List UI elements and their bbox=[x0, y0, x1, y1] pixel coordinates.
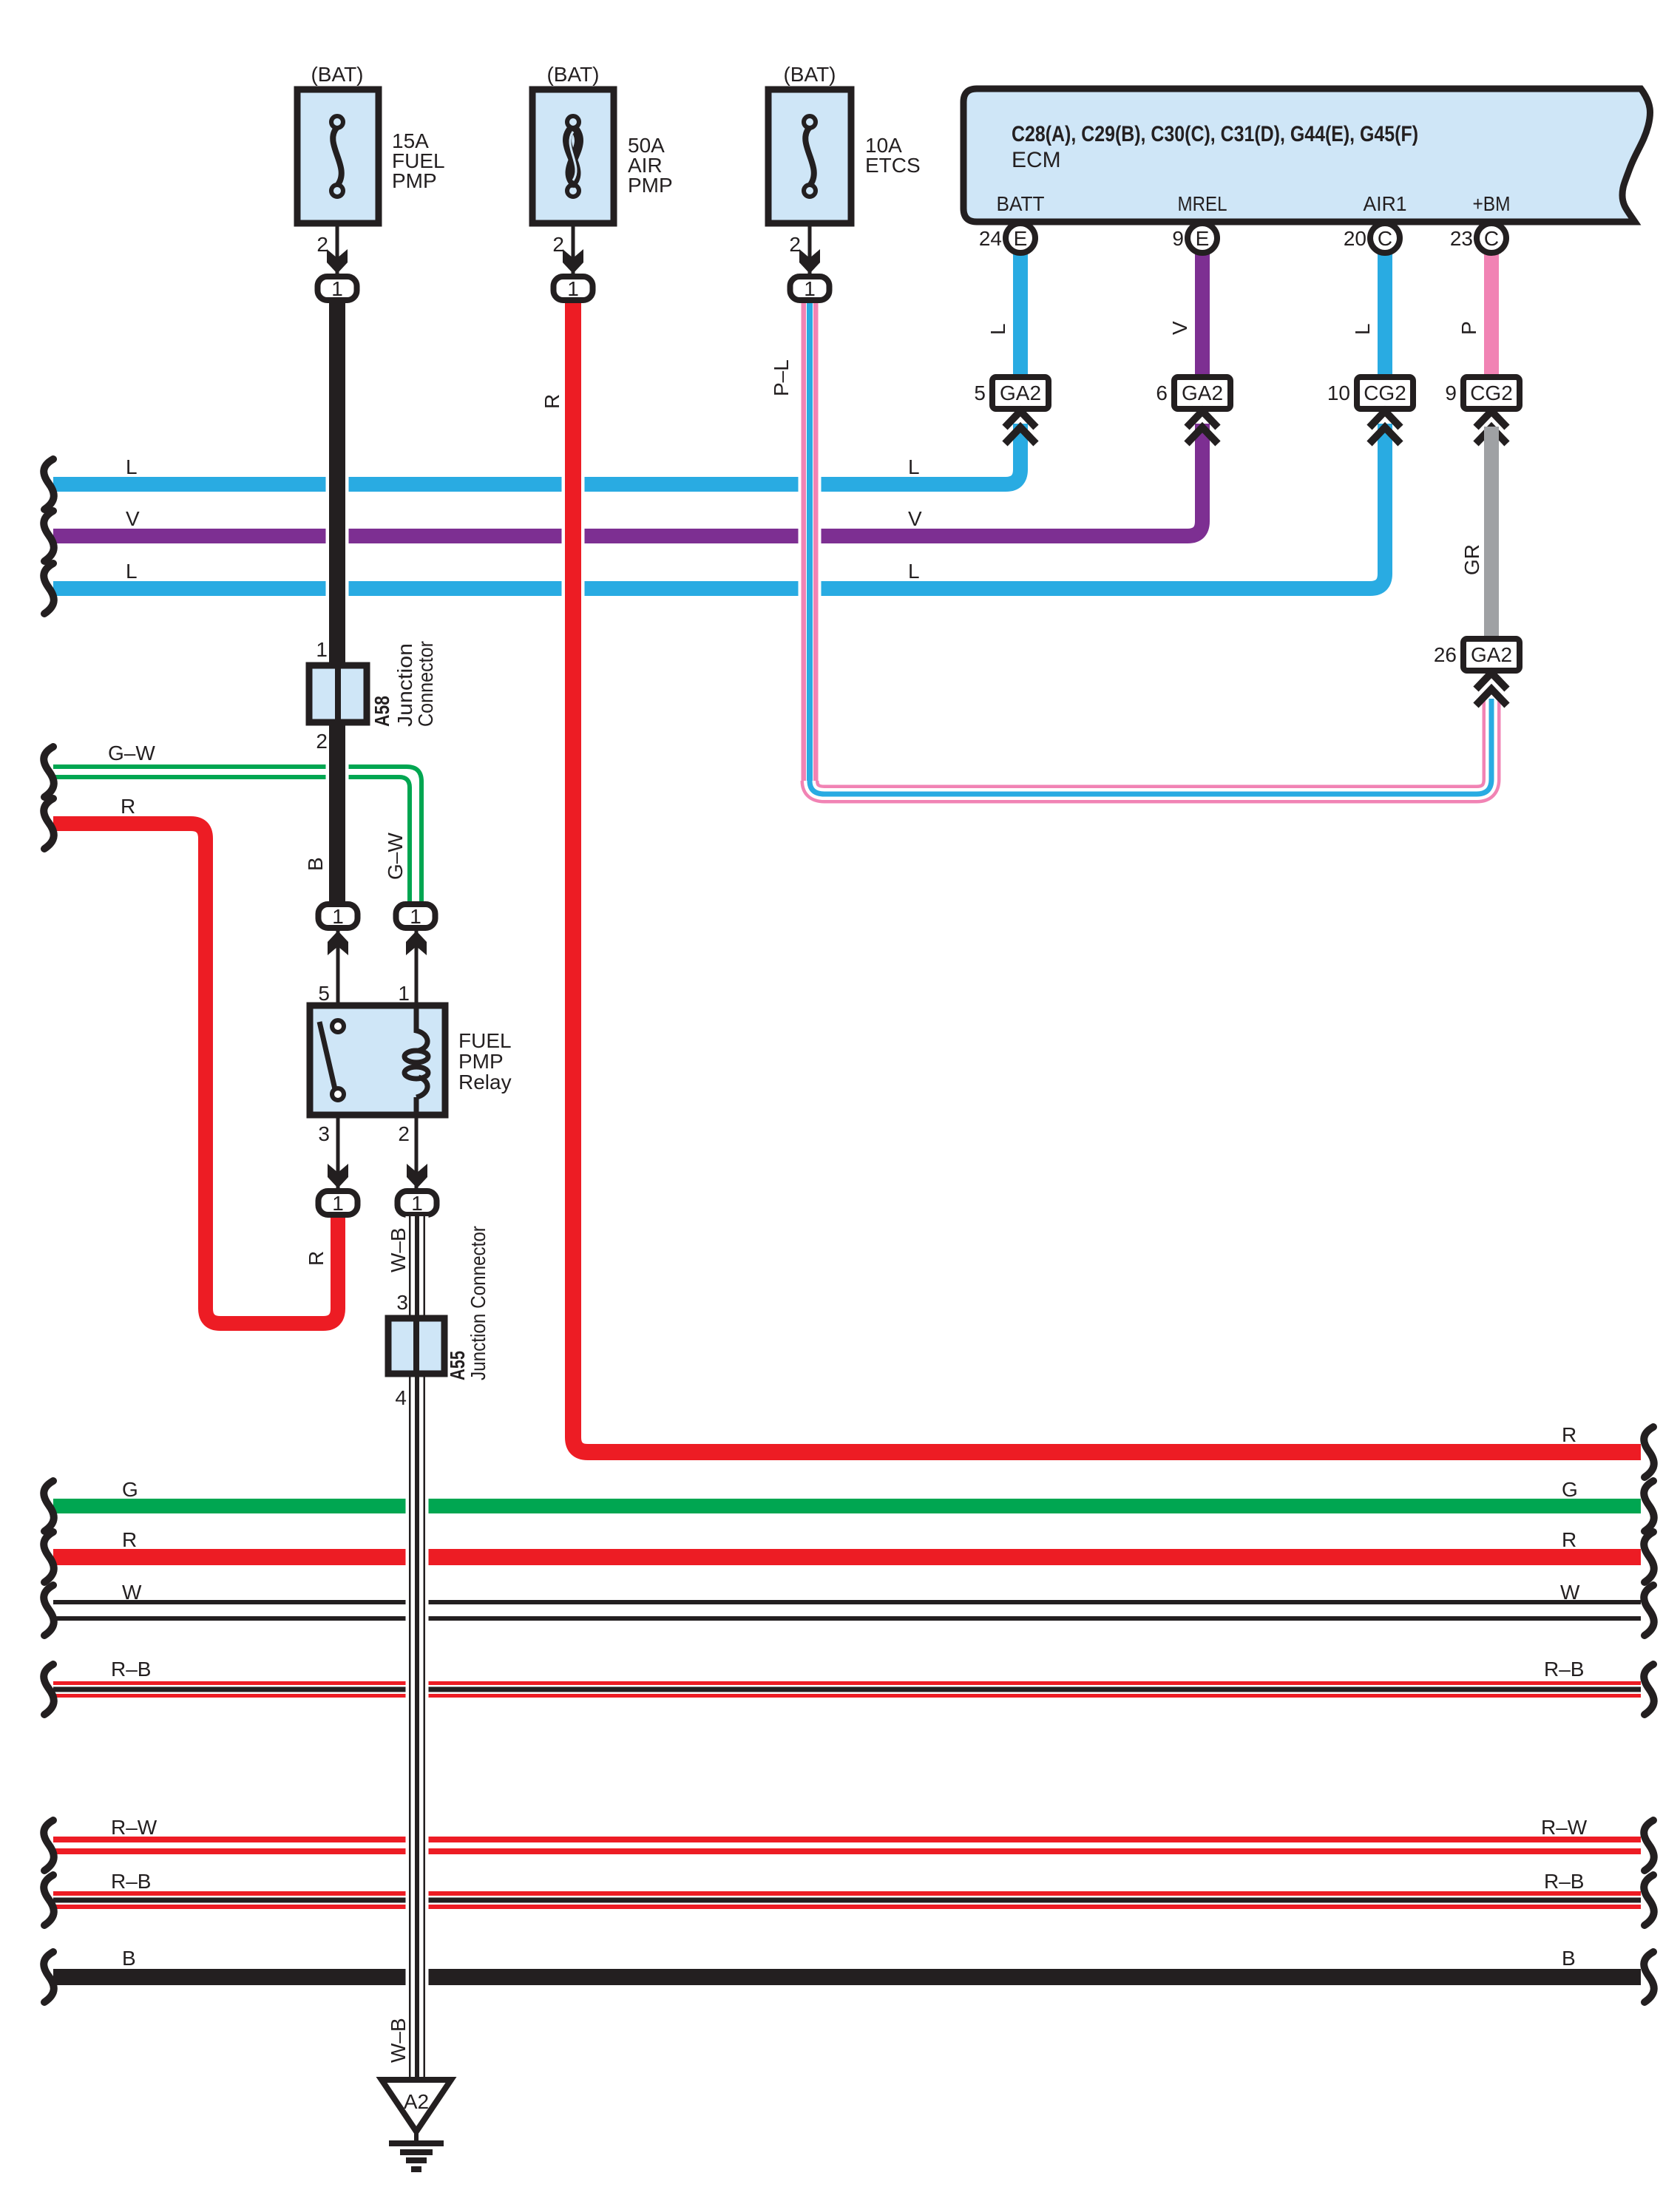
ground A2 bbox=[382, 2080, 451, 2169]
svg-text:5: 5 bbox=[318, 982, 330, 1005]
svg-text:W: W bbox=[1560, 1581, 1580, 1604]
svg-text:1: 1 bbox=[398, 982, 410, 1005]
wire bus R bbox=[44, 1528, 1654, 1582]
svg-text:R: R bbox=[1562, 1528, 1576, 1551]
svg-text:5: 5 bbox=[974, 382, 986, 404]
svg-text:L: L bbox=[126, 455, 138, 478]
junction connector A58 bbox=[309, 638, 437, 753]
svg-text:4: 4 bbox=[395, 1386, 407, 1409]
svg-text:L: L bbox=[908, 455, 920, 478]
pin 9 E (MREL) bbox=[1172, 223, 1217, 253]
wire bus R-B lower bbox=[44, 1870, 1654, 1925]
node 1 (fuse 2 output connector) bbox=[554, 249, 593, 300]
svg-text:L: L bbox=[126, 560, 138, 583]
svg-text:2: 2 bbox=[316, 730, 328, 753]
wire L (AIR1 pin to CG2) bbox=[1351, 251, 1385, 379]
svg-text:ECM: ECM bbox=[1012, 148, 1061, 172]
wire bus W bbox=[44, 1581, 1654, 1635]
svg-text:R–W: R–W bbox=[1541, 1816, 1588, 1839]
wire P (+BM pin to CG2) bbox=[1457, 251, 1491, 379]
wire L (BATT pin to GA2) bbox=[986, 251, 1020, 379]
wire bus B bbox=[44, 1947, 1654, 2002]
svg-text:Relay: Relay bbox=[458, 1071, 512, 1093]
wire G-W (left bus to relay pin 1) bbox=[44, 742, 421, 906]
svg-text:R: R bbox=[305, 1251, 328, 1266]
svg-text:10: 10 bbox=[1327, 382, 1350, 404]
pin 20 C (AIR1) bbox=[1344, 223, 1400, 253]
pin 23 C (+BM) bbox=[1450, 223, 1506, 253]
svg-text:G: G bbox=[122, 1478, 138, 1501]
node 1 (fuse 3 output connector) bbox=[790, 249, 830, 300]
svg-text:C: C bbox=[1378, 227, 1392, 250]
ECM box bbox=[963, 89, 1650, 222]
svg-text:2: 2 bbox=[789, 233, 801, 256]
fuse 50A AIR PMP bbox=[532, 63, 673, 274]
svg-text:Junction Connector: Junction Connector bbox=[467, 1226, 490, 1380]
svg-text:GA2: GA2 bbox=[1471, 643, 1512, 666]
svg-text:MREL: MREL bbox=[1178, 192, 1227, 215]
svg-text:W–B: W–B bbox=[387, 1227, 410, 1272]
svg-text:(BAT): (BAT) bbox=[311, 63, 363, 86]
svg-text:23: 23 bbox=[1450, 227, 1473, 250]
svg-text:R–W: R–W bbox=[111, 1816, 157, 1839]
fuel pump relay bbox=[310, 930, 512, 1188]
svg-text:L: L bbox=[908, 560, 920, 583]
wire bus L upper (BATT to GA2) bbox=[44, 424, 1020, 509]
svg-text:FUEL: FUEL bbox=[458, 1029, 512, 1052]
svg-text:Connector: Connector bbox=[414, 641, 437, 727]
svg-text:G–W: G–W bbox=[384, 833, 407, 880]
svg-text:2: 2 bbox=[398, 1122, 410, 1145]
svg-text:20: 20 bbox=[1344, 227, 1366, 250]
svg-text:W–B: W–B bbox=[387, 2018, 410, 2063]
svg-text:3: 3 bbox=[318, 1122, 330, 1145]
svg-text:(BAT): (BAT) bbox=[783, 63, 836, 86]
wire P-L (fuse 3 to GA2 26) bbox=[770, 299, 1491, 794]
svg-text:W: W bbox=[122, 1581, 142, 1604]
fuse 10A ETCS bbox=[768, 63, 921, 274]
svg-text:GR: GR bbox=[1460, 544, 1483, 575]
svg-text:E: E bbox=[1196, 227, 1210, 250]
svg-text:PMP: PMP bbox=[458, 1050, 504, 1073]
pin 24 E (BATT) bbox=[979, 223, 1035, 253]
svg-text:B: B bbox=[304, 857, 327, 871]
connector 10 CG2 bbox=[1327, 377, 1413, 444]
node 1 (fuse 1 output connector) bbox=[318, 249, 357, 300]
svg-text:3: 3 bbox=[396, 1291, 408, 1314]
svg-text:V: V bbox=[908, 507, 922, 530]
wire V (MREL pin to GA2) bbox=[1168, 251, 1202, 379]
node 1 (G-W into relay pin 1) bbox=[396, 904, 436, 955]
svg-text:R–B: R–B bbox=[111, 1658, 151, 1681]
svg-text:E: E bbox=[1014, 227, 1028, 250]
wire GR (CG2 9 to GA2 26) bbox=[1460, 427, 1491, 640]
svg-text:P–L: P–L bbox=[770, 359, 793, 396]
svg-text:A2: A2 bbox=[404, 2090, 429, 2113]
svg-text:26: 26 bbox=[1434, 643, 1457, 666]
svg-text:2: 2 bbox=[552, 233, 564, 256]
svg-text:CG2: CG2 bbox=[1364, 382, 1406, 404]
wire R (fuse 2 to right bus) bbox=[541, 299, 1654, 1477]
svg-text:R–B: R–B bbox=[111, 1870, 151, 1893]
wire R (left bus to relay pin 3) bbox=[44, 795, 338, 1323]
svg-text:2: 2 bbox=[316, 233, 328, 256]
svg-text:R–B: R–B bbox=[1544, 1658, 1584, 1681]
svg-text:AIR1: AIR1 bbox=[1364, 192, 1407, 215]
svg-text:GA2: GA2 bbox=[1182, 382, 1223, 404]
svg-text:(BAT): (BAT) bbox=[546, 63, 599, 86]
connector 5 GA2 bbox=[974, 377, 1049, 444]
svg-text:C28(A), C29(B), C30(C), C31(D): C28(A), C29(B), C30(C), C31(D), G44(E), … bbox=[1012, 122, 1418, 146]
wire W-B (relay pin 2 to ground A2) bbox=[387, 1216, 417, 2080]
svg-text:GA2: GA2 bbox=[1000, 382, 1041, 404]
svg-text:R: R bbox=[1562, 1423, 1576, 1446]
fuse 15A FUEL PMP bbox=[297, 63, 445, 274]
svg-text:G: G bbox=[1562, 1478, 1578, 1501]
node 1 (relay pin 3 to R) bbox=[319, 1164, 358, 1215]
svg-text:R: R bbox=[541, 394, 563, 409]
svg-text:L: L bbox=[1351, 323, 1374, 335]
junction connector A55 bbox=[388, 1226, 490, 1409]
svg-text:V: V bbox=[1168, 321, 1191, 335]
connector 9 CG2 bbox=[1445, 377, 1520, 444]
svg-text:C: C bbox=[1484, 227, 1499, 250]
wire B (fuse 1 to relay pin 5 via A58) bbox=[304, 299, 337, 906]
svg-text:Junction: Junction bbox=[393, 643, 416, 727]
svg-text:V: V bbox=[126, 507, 140, 530]
svg-text:1: 1 bbox=[316, 638, 328, 661]
svg-text:ETCS: ETCS bbox=[865, 154, 921, 177]
wire bus V (MREL to GA2) bbox=[44, 424, 1202, 561]
wire bus L lower (AIR1 to CG2) bbox=[44, 424, 1385, 614]
svg-text:BATT: BATT bbox=[997, 192, 1045, 215]
node 1 (B into relay pin 5) bbox=[319, 904, 358, 955]
svg-text:A55: A55 bbox=[446, 1351, 469, 1380]
wire bus R-W bbox=[44, 1816, 1654, 1871]
connector 26 GA2 bbox=[1434, 639, 1520, 705]
node 1 (relay pin 2 to W-B) bbox=[398, 1164, 437, 1215]
svg-text:R–B: R–B bbox=[1544, 1870, 1584, 1893]
svg-text:6: 6 bbox=[1156, 382, 1168, 404]
svg-text:P: P bbox=[1457, 321, 1480, 335]
svg-text:PMP: PMP bbox=[392, 169, 437, 192]
svg-text:9: 9 bbox=[1172, 227, 1184, 250]
svg-text:R: R bbox=[122, 1528, 137, 1551]
svg-text:24: 24 bbox=[979, 227, 1002, 250]
wire bus R-B bbox=[44, 1658, 1654, 1715]
svg-text:9: 9 bbox=[1445, 382, 1457, 404]
svg-text:A58: A58 bbox=[370, 696, 393, 727]
svg-text:G–W: G–W bbox=[108, 742, 155, 764]
wire bus G bbox=[44, 1478, 1654, 1531]
svg-text:PMP: PMP bbox=[628, 174, 673, 197]
svg-text:CG2: CG2 bbox=[1470, 382, 1513, 404]
svg-text:+BM: +BM bbox=[1473, 192, 1511, 215]
svg-text:L: L bbox=[986, 323, 1009, 335]
svg-text:R: R bbox=[121, 795, 135, 818]
svg-text:B: B bbox=[122, 1947, 136, 1970]
connector 6 GA2 bbox=[1156, 377, 1230, 444]
svg-text:B: B bbox=[1562, 1947, 1576, 1970]
